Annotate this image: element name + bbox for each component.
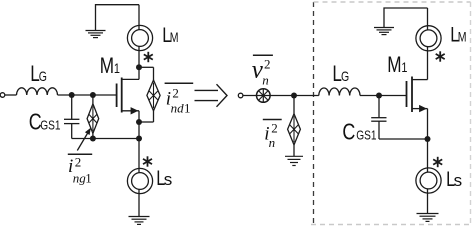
bottom wire CGS1/ing1 to source column: [72, 138, 139, 140]
input terminal (left circuit): [0, 93, 5, 98]
capacitor CGS1 (left): [64, 95, 79, 139]
ground (bottom left): [129, 217, 150, 225]
svg-text:M: M: [100, 54, 114, 79]
label LM (right): [450, 23, 466, 46]
svg-text:ng: ng: [73, 171, 87, 186]
wire LG to gate of M1 (right): [360, 95, 407, 97]
svg-text:n: n: [262, 73, 269, 88]
label vn noise (v^2 n with overbar): [252, 55, 273, 87]
svg-text:G: G: [39, 69, 47, 85]
svg-text:C: C: [342, 119, 355, 145]
svg-text:nd: nd: [171, 101, 185, 116]
label CGS1 (left): [29, 109, 61, 135]
node: source junction (right): [425, 136, 431, 142]
top supply wire (right): [384, 8, 428, 28]
node: gate net junction with CGS1: [69, 92, 75, 98]
implication arrow between circuits: [195, 84, 228, 107]
node: source junction with ind1: [136, 119, 142, 125]
transistor M1 (left): [117, 78, 139, 115]
svg-text:1: 1: [85, 171, 92, 186]
label LM (left): [162, 23, 178, 46]
svg-text:1: 1: [114, 61, 120, 77]
input terminal (right circuit): [238, 93, 243, 98]
svg-text:M: M: [387, 53, 401, 78]
svg-text:GS1: GS1: [356, 128, 376, 142]
wire LG to gate of M1: [58, 94, 117, 96]
node: junction with in source: [291, 93, 297, 99]
transistor M1 (right): [407, 77, 428, 113]
svg-text:GS1: GS1: [40, 118, 60, 132]
inductor LG (right): [319, 88, 360, 96]
dashed box : right edge: [470, 2, 472, 225]
junction: ing1 bottom on bottom wire: [90, 136, 96, 142]
wire vn to LG (right): [270, 95, 319, 97]
label M1 (left): [100, 54, 120, 79]
ground (below in source): [285, 156, 303, 165]
wire terminal to vn source: [243, 95, 270, 97]
svg-text:s: s: [164, 170, 173, 189]
noise voltage source vn (circle with star): [257, 89, 271, 103]
noise current source in (diamond): [288, 96, 301, 157]
source column wire (right): [427, 109, 429, 173]
svg-text:n: n: [269, 135, 276, 150]
svg-text:G: G: [341, 69, 349, 85]
dashed box : bottom edge: [311, 224, 471, 226]
svg-text:2: 2: [172, 86, 179, 101]
label ing1 noise (i^2 ng1 with overbar): [68, 154, 92, 185]
ground (top right): [374, 28, 394, 35]
noise current source ing1 (diamond): [87, 95, 99, 139]
label LS (left): [156, 166, 172, 189]
noise current source ind1 (diamond): [139, 67, 160, 122]
source column wire: [138, 111, 140, 173]
svg-text:1: 1: [401, 60, 407, 76]
label LG (left): [30, 62, 47, 87]
asterisk at LM (left): [144, 52, 153, 62]
inductor LS spiral (left): [127, 168, 152, 216]
top supply wire (left): [96, 5, 140, 31]
label CGS1 (right): [342, 119, 376, 145]
label ind1 noise (i^2 nd1 with overbar): [165, 83, 194, 115]
svg-text:s: s: [454, 171, 463, 190]
bottom wire CGS1 to source column (right): [379, 138, 428, 140]
capacitor CGS1 (right): [371, 96, 386, 140]
drain column wire: [138, 46, 140, 79]
dashed box around right-hand equivalent circuit : left edge: [313, 2, 315, 223]
ground (bottom right): [417, 214, 439, 222]
label in noise (i^2 n with overbar): [263, 120, 282, 151]
asterisk at LS (left): [143, 156, 152, 166]
svg-text:M: M: [458, 29, 467, 45]
svg-text:M: M: [170, 30, 179, 46]
asterisk at LS (right): [433, 157, 442, 167]
label LS (right): [446, 167, 462, 190]
node: drain junction with ind1: [136, 64, 142, 70]
node: gate net junction with ing1: [90, 92, 96, 98]
ground (top left): [86, 31, 106, 38]
inductor LG (left): [17, 88, 58, 95]
svg-text:2: 2: [271, 121, 278, 136]
label M1 (right): [387, 53, 407, 78]
dashed box : top edge: [314, 1, 471, 3]
inductor LM spiral (left): [127, 5, 152, 51]
inductor LM spiral (right): [416, 8, 441, 51]
svg-text:1: 1: [184, 101, 191, 116]
drain column wire (right): [427, 47, 429, 80]
svg-text:2: 2: [75, 155, 82, 170]
node: gate junction with CGS1 (right): [376, 93, 382, 99]
wire input to LG: [5, 94, 17, 96]
inductor LS spiral (right): [416, 168, 441, 214]
svg-text:2: 2: [264, 57, 271, 72]
annotation arrow pointing to ing1: [77, 128, 91, 151]
asterisk at LM (right): [436, 51, 445, 61]
junction: bottom wire at source column: [136, 136, 142, 142]
label LG (right): [332, 62, 349, 87]
